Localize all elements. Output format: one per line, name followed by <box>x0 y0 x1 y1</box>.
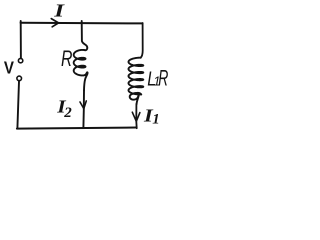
wire: top horizontal from source to branches <box>21 22 143 25</box>
current arrow I on top wire <box>51 19 58 27</box>
wire: right branch vertical from top wire <box>141 23 143 58</box>
wire: left vertical upper (to source + terminal) <box>20 21 22 58</box>
svg-text:R: R <box>61 47 73 71</box>
wire: middle branch vertical from top wire <box>82 21 88 50</box>
arrowhead I2 (downward) <box>80 101 86 109</box>
svg-text:1: 1 <box>152 111 160 127</box>
wire: bottom horizontal return <box>17 128 137 129</box>
svg-text:I: I <box>53 0 66 21</box>
arrowhead I1 (downward) <box>132 112 140 121</box>
source terminal (top circle) <box>18 58 22 62</box>
wire: left vertical lower (from - terminal) <box>17 81 19 128</box>
inductor exit tail curl (g-loop) <box>130 93 142 104</box>
resistor R exit curl <box>84 72 88 90</box>
svg-text:V: V <box>4 57 14 78</box>
wire: right branch lower with I1 arrow <box>135 104 137 128</box>
svg-text:R: R <box>158 65 168 90</box>
wire: middle branch lower with I2 arrow <box>82 91 85 128</box>
inductor L1R (coil) <box>129 58 144 95</box>
resistor R (coil) <box>74 50 86 76</box>
svg-text:2: 2 <box>63 105 72 121</box>
source terminal (bottom circle) <box>17 76 22 81</box>
